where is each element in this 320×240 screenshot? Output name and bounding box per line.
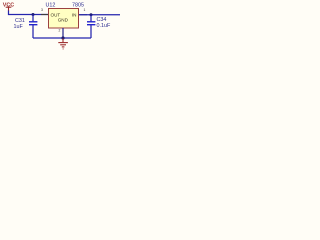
node C: junction of gnd pin and rail (61, 36, 64, 39)
svg-text:7805: 7805 (72, 3, 84, 9)
ground (58, 39, 68, 49)
label C34 designator (97, 17, 107, 23)
label C31 designator (15, 18, 25, 24)
svg-text:IN: IN (72, 13, 77, 18)
svg-text:1: 1 (84, 8, 86, 12)
wire VCC to U12 IN-side (left) (9, 11, 49, 15)
pin 3 OUT stub (left) (41, 14, 48, 16)
capacitor C31 (29, 15, 37, 39)
power port VCC (3, 2, 14, 11)
svg-text:3: 3 (41, 8, 43, 12)
wire U12 right pin to C34 and right edge (79, 14, 120, 16)
pin IN name (72, 13, 77, 18)
svg-text:GND: GND (58, 18, 69, 23)
svg-text:0.1uF: 0.1uF (97, 23, 111, 29)
pin number 3 (left pin) (41, 8, 43, 12)
pin number 1 (right pin) (84, 8, 86, 12)
node A: junction at C31 tap (32, 13, 35, 16)
wire bottom ground rail (33, 37, 91, 39)
pin GND wire from U12 bottom (62, 28, 64, 38)
svg-text:1uF: 1uF (14, 24, 24, 30)
label C34 value 0.1uF (97, 23, 111, 29)
label C31 value 1uF (14, 24, 24, 30)
label 7805 comment (72, 3, 84, 9)
label U12 designator (46, 3, 56, 9)
svg-text:U12: U12 (46, 3, 56, 9)
op-amp U1 replaced: regulator U12 body (49, 9, 79, 29)
node B: junction at C34 tap (90, 13, 93, 16)
svg-text:2: 2 (59, 29, 61, 33)
pin number 2 (gnd pin) (59, 29, 61, 33)
pin 1 IN stub (right) (79, 14, 87, 16)
capacitor C34 (87, 15, 95, 38)
pin GND name (58, 18, 69, 23)
pin OUT name (51, 13, 61, 18)
